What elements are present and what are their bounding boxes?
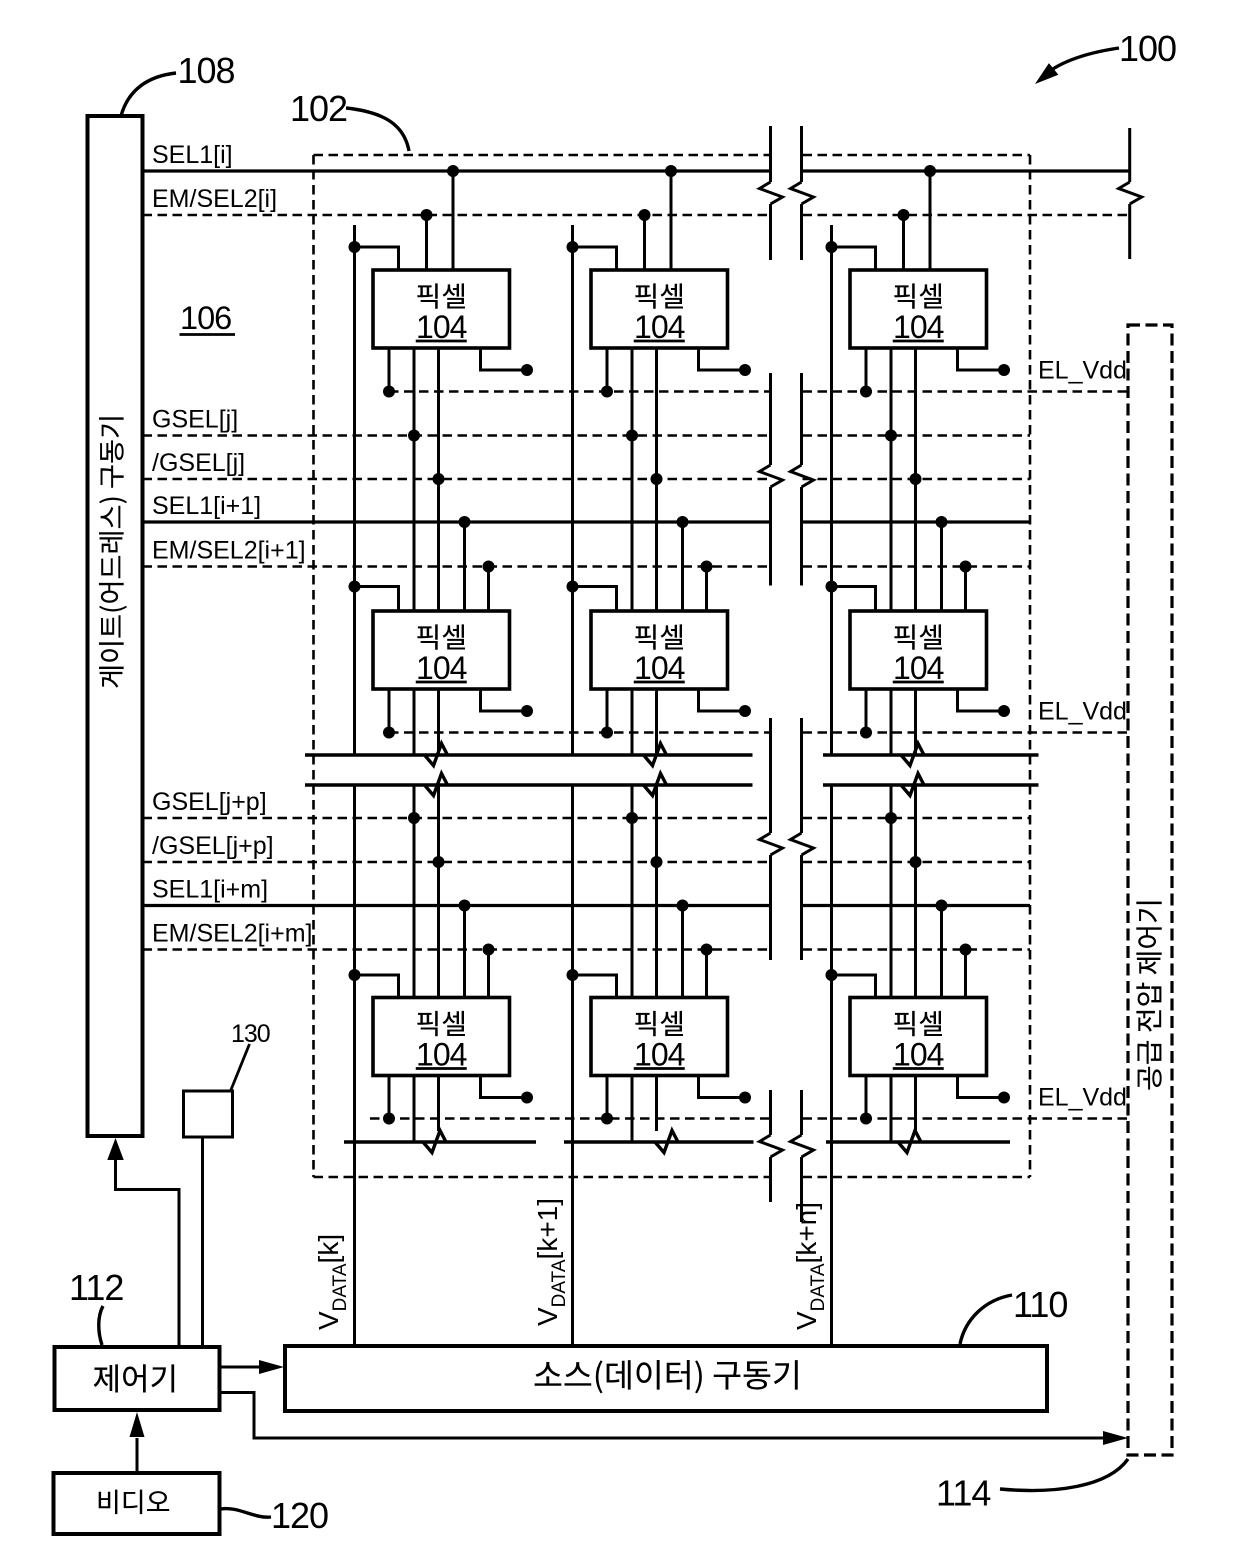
svg-text:110: 110	[1013, 1284, 1067, 1325]
junction dot SEL tap r1c3	[924, 165, 936, 177]
wire stub2 below pixel r3c3	[914, 1076, 917, 1132]
junction dot VDATA r2c1	[349, 581, 361, 593]
junction dot SEL tap r3c3	[936, 900, 948, 912]
svg-text:EL_Vdd: EL_Vdd	[1038, 1084, 1127, 1112]
wire controller to gate driver (with up arrow)	[116, 1158, 180, 1347]
svg-text:EL_Vdd: EL_Vdd	[1038, 357, 1127, 385]
wire EM/SEL2[i] tap r1c3	[902, 215, 905, 270]
junction dot EL_Vdd r2c1	[383, 727, 395, 739]
junction dot /GSEL[j+p] c3	[910, 856, 922, 868]
junction dot SEL tap r2c3	[936, 516, 948, 528]
wire /GSEL[j+p] line (dashed)	[143, 861, 770, 864]
video label text	[99, 1490, 170, 1515]
wire /GSEL[j] connector r1c3	[914, 348, 917, 611]
pixel cell 104 (row 3, col 2)	[591, 998, 728, 1076]
junction dot EL_Vdd r2c3	[860, 727, 872, 739]
wire GSEL[j] connector r1c2	[631, 348, 634, 611]
svg-text:EL_Vdd: EL_Vdd	[1038, 698, 1127, 726]
svg-text:108: 108	[178, 50, 235, 91]
wire VDATA elbow into pixel r3c2	[573, 975, 617, 998]
svg-text:SEL1[i]: SEL1[i]	[152, 141, 233, 169]
wire /GSEL[j+p] connector r2c2	[655, 689, 658, 755]
svg-text:106: 106	[180, 300, 231, 336]
wire GSEL[j] connector r1c3	[890, 348, 893, 611]
junction dot /GSEL[j] c1	[433, 473, 445, 485]
wire block 130 to controller	[201, 1137, 204, 1347]
svg-text:EM/SEL2[i+1]: EM/SEL2[i+1]	[152, 537, 306, 565]
junction dot EM tap r1c2	[639, 209, 651, 221]
terminal dot r1c2	[739, 364, 751, 376]
terminal dot r1c3	[998, 364, 1010, 376]
wire controller to supply controller (long arrow)	[220, 1393, 1106, 1439]
wire EM/SEL2[i+m] line (dashed)	[143, 948, 770, 951]
wire output elbow r2c3	[958, 689, 1005, 711]
junction dot GSEL[j+p] c1	[408, 812, 420, 824]
junction dot EM tap r2c1	[483, 561, 495, 573]
junction dot EL_Vdd r1c2	[601, 386, 613, 398]
wire EL_Vdd tap r3c1	[388, 1076, 391, 1119]
terminal dot r3c1	[521, 1092, 533, 1104]
wire /GSEL[j] connector r1c1	[437, 348, 440, 611]
junction dot VDATA r3c3	[826, 969, 838, 981]
junction dot EM tap r2c3	[960, 561, 972, 573]
pixel cell 104 (row 1, col 1)	[373, 270, 510, 348]
wire EM/SEL2 tap r2c3	[964, 567, 967, 612]
wire VDATA elbow into pixel r3c3	[832, 975, 876, 998]
gate (address) driver block 108	[88, 116, 143, 1136]
junction dot EL_Vdd r1c3	[860, 386, 872, 398]
array row-break cut line upper pair	[305, 753, 753, 756]
wire SEL1[i+1] row select line	[143, 520, 770, 523]
svg-text:SEL1[i+m]: SEL1[i+m]	[152, 876, 268, 904]
wire output elbow r1c3	[958, 348, 1005, 370]
junction dot GSEL[j] c1	[408, 430, 420, 442]
terminal dot r1c1	[521, 364, 533, 376]
wire SEL1 tap r2c3	[940, 522, 943, 611]
wire SEL1 tap r3c1	[463, 906, 466, 998]
wire VDATA[k] column data line	[353, 225, 356, 755]
junction dot EL_Vdd r3c3	[860, 1113, 872, 1125]
junction dot VDATA r1c1	[349, 241, 361, 253]
wire VDATA elbow into pixel r2c2	[573, 587, 617, 612]
junction dot VDATA r1c3	[826, 241, 838, 253]
junction dot /GSEL[j+p] c2	[651, 856, 663, 868]
wire GSEL[j] line (dashed)	[143, 434, 770, 437]
wire EL_Vdd tap r1c2	[606, 348, 609, 392]
wire VDATA elbow into pixel r2c1	[355, 587, 399, 612]
terminal dot r2c2	[739, 705, 751, 717]
wire EM/SEL2 tap r2c1	[487, 567, 490, 612]
wire GSEL[j+p] connector r2c2	[631, 689, 634, 755]
break zigzags on bottom cut line	[423, 1131, 446, 1153]
wire output elbow r1c2	[699, 348, 746, 370]
svg-text:EM/SEL2[i]: EM/SEL2[i]	[152, 185, 277, 213]
svg-text:GSEL[j+p]: GSEL[j+p]	[152, 788, 267, 816]
label VDATA[k] (rotated)	[313, 1234, 351, 1330]
label VDATA[k+n] (rotated)	[791, 1202, 829, 1330]
source driver label text	[535, 1360, 798, 1393]
terminal dot r3c2	[739, 1092, 751, 1104]
svg-text:/GSEL[j]: /GSEL[j]	[152, 449, 245, 477]
junction dot EM tap r3c1	[483, 944, 495, 956]
wire SEL1 tap r2c1	[463, 522, 466, 611]
svg-text:EM/SEL2[i+m]: EM/SEL2[i+m]	[152, 920, 312, 948]
wire /GSEL[j+p] connector r2c3	[914, 689, 917, 755]
pixel cell 104 (row 2, col 2)	[591, 611, 728, 689]
junction dot EL_Vdd r3c2	[601, 1113, 613, 1125]
wire VDATA[k+1] column data line	[571, 225, 574, 755]
pixel cell 104 (row 1, col 3)	[850, 270, 987, 348]
wire EM/SEL2 tap r3c3	[964, 950, 967, 998]
wire video to controller (up arrow)	[136, 1438, 139, 1473]
junction dot EM tap r3c2	[701, 944, 713, 956]
wire stub below pixel r3c1	[413, 1076, 416, 1143]
wire EL_Vdd rail row 1 (dashed)	[389, 390, 770, 393]
wire output elbow r3c1	[481, 1076, 528, 1098]
controller label text	[94, 1364, 175, 1392]
wire GSEL[j+p] connector r2c3	[890, 689, 893, 755]
video block 120	[54, 1473, 220, 1534]
pixel cell 104 (row 3, col 1)	[373, 998, 510, 1076]
wire EL_Vdd rail row 2 (dashed)	[389, 731, 770, 734]
wire EL_Vdd tap r1c1	[388, 348, 391, 392]
wire EL_Vdd tap r2c3	[865, 689, 868, 733]
junction dot VDATA r2c2	[567, 581, 579, 593]
wire VDATA elbow into pixel r1c2	[573, 247, 617, 270]
wire SEL1[i] tap r1c1	[452, 171, 455, 270]
wire EM/SEL2[i] tap r1c2	[643, 215, 646, 270]
wire stub below pixel r3c3	[890, 1076, 893, 1143]
wire GSEL[j] connector r1c1	[413, 348, 416, 611]
array bottom cut line (below row 3)	[344, 1140, 536, 1143]
terminal dot r2c1	[521, 705, 533, 717]
svg-text:114: 114	[936, 1473, 990, 1514]
wire SEL1[i] tap r1c3	[929, 171, 932, 270]
svg-text:120: 120	[271, 1495, 328, 1536]
junction dot VDATA r2c3	[826, 581, 838, 593]
wire output elbow r3c3	[958, 1076, 1005, 1098]
wire VDATA elbow into pixel r1c1	[355, 247, 399, 270]
column break line pair (right)	[800, 126, 803, 182]
gate driver label text (rotated Korean)	[99, 417, 127, 687]
wire EM/SEL2[i+1] line (dashed)	[143, 565, 770, 568]
pixel cell 104 (row 1, col 2)	[591, 270, 728, 348]
svg-text:112: 112	[69, 1267, 123, 1308]
svg-text:100: 100	[1119, 28, 1176, 69]
wire EM/SEL2[i] line (dashed)	[143, 214, 770, 217]
wire EM/SEL2 tap r3c1	[487, 950, 490, 998]
supply voltage controller dashed block 114	[1128, 325, 1172, 1455]
junction dot GSEL[j+p] c3	[885, 812, 897, 824]
wire GSEL[j+p] line (dashed)	[143, 817, 770, 820]
right edge continuation line with break	[1128, 128, 1131, 182]
junction dot SEL tap r2c2	[677, 516, 689, 528]
wire output elbow r2c2	[699, 689, 746, 711]
wire VDATA[k+n] column data line	[830, 225, 833, 755]
junction dot EL_Vdd r3c1	[383, 1113, 395, 1125]
junction dot /GSEL[j+p] c1	[433, 856, 445, 868]
wire SEL1 tap r3c2	[681, 906, 684, 998]
pixel cell 104 (row 2, col 1)	[373, 611, 510, 689]
label VDATA[k+1] (rotated)	[532, 1198, 570, 1326]
wire EL_Vdd tap r1c3	[865, 348, 868, 392]
wire /GSEL[j] line (dashed)	[143, 478, 770, 481]
column break line pair (left)	[769, 126, 772, 182]
junction dot EL_Vdd r2c2	[601, 727, 613, 739]
junction dot SEL tap r1c1	[447, 165, 459, 177]
svg-text:/GSEL[j+p]: /GSEL[j+p]	[152, 832, 274, 860]
wire stub2 below pixel r3c1	[437, 1076, 440, 1132]
wire /GSEL[j] connector r1c2	[655, 348, 658, 611]
wire EL_Vdd rail row 3 (dashed)	[370, 1117, 770, 1120]
wire VDATA elbow into pixel r3c1	[355, 975, 399, 998]
junction dot GSEL[j] c3	[885, 430, 897, 442]
svg-text:102: 102	[290, 88, 347, 129]
break zigzags on upper cut pair	[425, 744, 448, 766]
wire output elbow r3c2	[699, 1076, 746, 1098]
wire /GSEL[j+p] connector r2c1	[437, 689, 440, 755]
svg-text:SEL1[i+1]: SEL1[i+1]	[152, 492, 261, 520]
terminal dot r2c3	[998, 705, 1010, 717]
junction dot SEL tap r1c2	[665, 165, 677, 177]
junction dot SEL tap r3c2	[677, 900, 689, 912]
wire controller to source driver (arrow)	[220, 1366, 263, 1369]
wire SEL1[i] row select line	[143, 169, 770, 172]
junction dot EM tap r1c1	[421, 209, 433, 221]
pixel array dashed border 102	[314, 154, 770, 157]
wire SEL1 tap r3c3	[940, 906, 943, 998]
wire SEL1[i] tap r1c2	[670, 171, 673, 270]
wire stub below pixel r3c2	[631, 1076, 634, 1143]
wire output elbow r2c1	[481, 689, 528, 711]
junction dot VDATA r1c2	[567, 241, 579, 253]
junction dot EM tap r2c2	[701, 561, 713, 573]
controller block 112	[55, 1347, 220, 1410]
wire EL_Vdd tap r2c1	[388, 689, 391, 733]
pixel cell 104 (row 3, col 3)	[850, 998, 987, 1076]
wire EL_Vdd tap r3c3	[865, 1076, 868, 1119]
junction dot EL_Vdd r1c1	[383, 386, 395, 398]
junction dot VDATA r3c2	[567, 969, 579, 981]
wire SEL1[i+m] row select line	[143, 904, 770, 907]
wire output elbow r1c1	[481, 348, 528, 370]
terminal dot r3c3	[998, 1092, 1010, 1104]
supply voltage controller label (rotated Korean)	[1136, 902, 1161, 1090]
wire EL_Vdd tap r3c2	[606, 1076, 609, 1119]
junction dot SEL tap r2c1	[459, 516, 471, 528]
wire EM/SEL2 tap r3c2	[705, 950, 708, 998]
junction dot EM tap r3c3	[960, 944, 972, 956]
junction dot /GSEL[j] c3	[910, 473, 922, 485]
source (data) driver block 110	[285, 1346, 1047, 1411]
junction dot /GSEL[j] c2	[651, 473, 663, 485]
wire EM/SEL2 tap r2c2	[705, 567, 708, 612]
wire SEL1 tap r2c2	[681, 522, 684, 611]
wire VDATA elbow into pixel r2c3	[832, 587, 876, 612]
junction dot EM tap r1c3	[898, 209, 910, 221]
svg-text:GSEL[j]: GSEL[j]	[152, 406, 238, 434]
junction dot GSEL[j+p] c2	[626, 812, 638, 824]
junction dot SEL tap r3c1	[459, 900, 471, 912]
block 130 (small box)	[184, 1091, 233, 1137]
wire EL_Vdd tap r2c2	[606, 689, 609, 733]
wire EM/SEL2[i] tap r1c1	[425, 215, 428, 270]
junction dot GSEL[j] c2	[626, 430, 638, 442]
junction dot VDATA r3c1	[349, 969, 361, 981]
wire stub2 below pixel r3c2	[655, 1076, 658, 1132]
svg-text:130: 130	[231, 1020, 270, 1048]
pixel cell 104 (row 2, col 3)	[850, 611, 987, 689]
wire VDATA elbow into pixel r1c3	[832, 247, 876, 270]
wire GSEL[j+p] connector r2c1	[413, 689, 416, 755]
